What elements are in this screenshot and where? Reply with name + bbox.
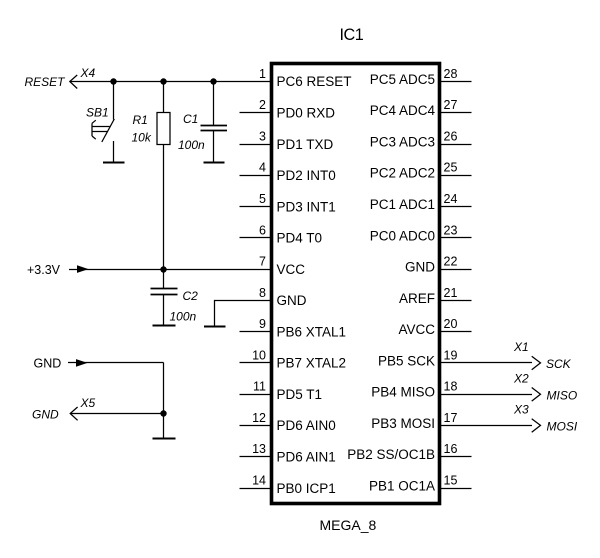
pin 15 label PB1 OC1A: [369, 479, 435, 494]
svg-text:26: 26: [444, 130, 458, 144]
wire pin 19 to X1: [440, 362, 533, 364]
wire C2 top lead: [163, 270, 165, 289]
junction dot SB1 branch: [110, 78, 116, 84]
svg-text:PD6 AIN0: PD6 AIN0: [277, 418, 336, 433]
pin number 1: [259, 67, 266, 81]
pin 13 label PD6 AIN1: [277, 450, 336, 465]
ground under C2: [153, 325, 176, 327]
wire R1 top lead: [163, 82, 165, 113]
svg-text:PC6 RESET: PC6 RESET: [277, 74, 352, 89]
svg-text:27: 27: [444, 98, 458, 112]
connector X3 open arrow: [532, 419, 541, 433]
wire SB1 top lead: [113, 82, 115, 120]
pin 12 label PD6 AIN0: [277, 418, 336, 433]
wire pin 26 stub: [440, 144, 472, 146]
pin 24 label PC1 ADC1: [370, 197, 435, 212]
wire GND flag to vertical: [68, 362, 164, 364]
svg-text:GND: GND: [34, 357, 62, 371]
pin 26 label PC3 ADC3: [370, 135, 435, 150]
wire C2 bottom lead: [163, 295, 165, 326]
label X4: [80, 66, 96, 80]
svg-text:PB2 SS/OC1B: PB2 SS/OC1B: [347, 447, 435, 462]
svg-text:PD1 TXD: PD1 TXD: [277, 137, 334, 152]
wire pin 8 GND stub: [215, 301, 272, 327]
svg-text:14: 14: [252, 474, 266, 488]
svg-text:23: 23: [444, 223, 458, 237]
svg-text:7: 7: [259, 255, 266, 269]
pin number 5: [259, 192, 266, 206]
svg-text:C2: C2: [183, 289, 199, 303]
wire vertical GND net: [163, 363, 165, 439]
label GND (connector): [32, 408, 59, 422]
pin number 26: [444, 130, 458, 144]
svg-text:17: 17: [444, 411, 458, 425]
svg-text:3: 3: [259, 130, 266, 144]
svg-text:8: 8: [259, 286, 266, 300]
label IC1: [340, 26, 364, 44]
label X2: [513, 371, 529, 385]
pin number 19: [444, 348, 458, 362]
pin number 28: [444, 67, 458, 81]
wire pin 4 stub: [240, 175, 272, 177]
svg-text:16: 16: [444, 442, 458, 456]
wire pin 2 stub: [240, 112, 272, 114]
pin number 13: [252, 442, 266, 456]
junction dot C2 branch: [160, 266, 166, 272]
pin 8 label GND: [277, 293, 307, 308]
ground under pin 8 branch: [204, 326, 226, 328]
capacitor C1: [201, 126, 228, 131]
connector X1 open arrow: [532, 356, 541, 370]
pin 1 label PC6 RESET: [277, 74, 352, 89]
svg-text:PB6 XTAL1: PB6 XTAL1: [277, 324, 347, 339]
pin 22 label GND: [405, 260, 435, 275]
pushbutton SB1: [92, 119, 114, 142]
svg-text:X4: X4: [80, 66, 96, 80]
connector X5 open arrow: [70, 407, 77, 420]
svg-text:11: 11: [253, 380, 266, 394]
wire pin 18 to X2: [440, 394, 533, 396]
svg-text:28: 28: [444, 67, 458, 81]
value 100n: [178, 138, 205, 152]
svg-text:PC4 ADC4: PC4 ADC4: [370, 103, 436, 118]
svg-text:PC0 ADC0: PC0 ADC0: [370, 228, 435, 243]
pin 9 label PB6 XTAL1: [277, 324, 347, 339]
svg-text:PD3 INT1: PD3 INT1: [277, 199, 336, 214]
wire pin 9 stub: [240, 331, 272, 333]
svg-text:21: 21: [444, 286, 458, 300]
wire pin 25 stub: [440, 175, 472, 177]
pin number 24: [444, 192, 458, 206]
pin number 15: [444, 474, 458, 488]
svg-text:PD4 T0: PD4 T0: [277, 231, 323, 246]
wire pin 24 stub: [440, 206, 472, 208]
svg-text:5: 5: [259, 192, 266, 206]
pin 7 label VCC: [277, 262, 306, 277]
svg-text:X3: X3: [513, 403, 529, 417]
pin number 2: [259, 98, 266, 112]
pin number 7: [259, 255, 266, 269]
pin 4 label PD2 INT0: [277, 168, 336, 183]
pin 10 label PB7 XTAL2: [277, 356, 347, 371]
svg-text:X5: X5: [80, 396, 96, 410]
svg-text:PB4 MISO: PB4 MISO: [371, 385, 435, 400]
pin number 25: [444, 161, 458, 175]
pin number 16: [444, 442, 458, 456]
pin number 18: [444, 380, 458, 394]
label GND power flag: [34, 357, 62, 371]
label +3.3V: [27, 263, 61, 277]
svg-text:18: 18: [444, 380, 458, 394]
label MOSI: [547, 420, 578, 434]
capacitor C2: [151, 289, 178, 295]
wire pin 11 stub: [240, 394, 272, 396]
pin 18 label PB4 MISO: [371, 385, 435, 400]
pin 23 label PC0 ADC0: [370, 228, 435, 243]
svg-text:GND: GND: [405, 260, 435, 275]
svg-text:C1: C1: [183, 112, 198, 126]
pin number 14: [252, 474, 266, 488]
pin 25 label PC2 ADC2: [370, 166, 435, 181]
value 10k: [132, 131, 152, 145]
pin 11 label PD5 T1: [277, 387, 323, 402]
pin 3 label PD1 TXD: [277, 137, 334, 152]
svg-text:PB0 ICP1: PB0 ICP1: [277, 481, 336, 496]
wire pin 17 to X3: [440, 425, 533, 427]
svg-text:PB3 MOSI: PB3 MOSI: [371, 416, 435, 431]
wire C1 top lead: [213, 82, 215, 126]
pin 20 label AVCC: [398, 322, 435, 337]
svg-text:VCC: VCC: [277, 262, 306, 277]
pin number 23: [444, 223, 458, 237]
svg-text:AVCC: AVCC: [398, 322, 435, 337]
svg-text:R1: R1: [133, 113, 148, 127]
pin 27 label PC4 ADC4: [370, 103, 436, 118]
wire pin 21 stub: [440, 300, 472, 302]
ground under C1: [204, 162, 225, 164]
pin number 20: [444, 317, 458, 331]
svg-text:+3.3V: +3.3V: [27, 263, 61, 277]
IC body outline U=IC1: [272, 64, 440, 504]
wire X5 branch: [70, 413, 164, 415]
wire pin 23 stub: [440, 237, 472, 239]
wire pin 6 stub: [240, 237, 272, 239]
svg-text:PC1 ADC1: PC1 ADC1: [370, 197, 435, 212]
power flag GND filled arrow: [76, 359, 88, 367]
svg-text:MEGA_8: MEGA_8: [320, 517, 377, 533]
svg-text:25: 25: [444, 161, 458, 175]
svg-text:GND: GND: [277, 293, 307, 308]
wire pin 13 stub: [240, 456, 272, 458]
node RESET: wire from X4 arrow to pin 1: [70, 81, 272, 83]
ground under X5 net: [153, 438, 176, 440]
label X5: [80, 396, 96, 410]
svg-text:4: 4: [259, 161, 266, 175]
label SB1: [86, 106, 109, 120]
svg-text:19: 19: [444, 348, 458, 362]
wire pin 5 stub: [240, 206, 272, 208]
svg-text:X2: X2: [513, 371, 529, 385]
svg-text:PC5 ADC5: PC5 ADC5: [370, 72, 435, 87]
connector X4 open arrow: [70, 75, 77, 89]
connector X2 open arrow: [532, 388, 541, 402]
svg-text:100n: 100n: [170, 310, 197, 324]
pin 17 label PB3 MOSI: [371, 416, 435, 431]
pin number 3: [259, 130, 266, 144]
svg-text:22: 22: [444, 255, 458, 269]
wire pin 22 stub: [440, 269, 472, 271]
wire R1 bottom lead to +3.3V rail: [163, 145, 165, 270]
pin 16 label PB2 SS/OC1B: [347, 447, 435, 462]
pin number 4: [259, 161, 266, 175]
svg-text:PB7 XTAL2: PB7 XTAL2: [277, 356, 347, 371]
junction dot X5 branch: [160, 410, 166, 416]
pin number 6: [259, 223, 266, 237]
label MISO: [547, 388, 578, 402]
svg-text:PC3 ADC3: PC3 ADC3: [370, 135, 435, 150]
junction dot R1 branch: [160, 78, 166, 84]
pin 2 label PD0 RXD: [277, 106, 336, 121]
label X3: [513, 403, 529, 417]
svg-text:15: 15: [444, 474, 458, 488]
svg-text:IC1: IC1: [340, 26, 364, 44]
label R1: [133, 113, 148, 127]
svg-text:AREF: AREF: [399, 291, 435, 306]
svg-text:GND: GND: [32, 408, 59, 422]
wire pin 12 stub: [240, 425, 272, 427]
pin number 11: [253, 380, 266, 394]
pin number 9: [259, 317, 266, 331]
svg-text:MISO: MISO: [547, 388, 578, 402]
wire pin 27 stub: [440, 112, 472, 114]
svg-text:9: 9: [259, 317, 266, 331]
wire pin 10 stub: [240, 362, 272, 364]
wire pin 16 stub: [440, 456, 472, 458]
svg-text:SB1: SB1: [86, 106, 109, 120]
value label MEGA_8: [320, 517, 377, 533]
junction dot C1 branch: [210, 78, 216, 84]
svg-text:PD0 RXD: PD0 RXD: [277, 106, 336, 121]
power flag +3.3V filled arrow: [77, 265, 89, 273]
svg-text:1: 1: [259, 67, 266, 81]
svg-text:PD5 T1: PD5 T1: [277, 387, 323, 402]
svg-text:RESET: RESET: [25, 75, 67, 89]
svg-text:13: 13: [252, 442, 266, 456]
wire pin 14 stub: [240, 488, 272, 490]
pin 5 label PD3 INT1: [277, 199, 336, 214]
svg-text:24: 24: [444, 192, 458, 206]
svg-text:20: 20: [444, 317, 458, 331]
svg-text:2: 2: [259, 98, 266, 112]
label C1: [183, 112, 198, 126]
label X1: [513, 340, 529, 354]
pin number 27: [444, 98, 458, 112]
label SCK: [546, 357, 572, 371]
svg-text:PD2 INT0: PD2 INT0: [277, 168, 336, 183]
label RESET: [25, 75, 67, 89]
pin 28 label PC5 ADC5: [370, 72, 435, 87]
svg-text:12: 12: [252, 411, 266, 425]
svg-text:MOSI: MOSI: [547, 420, 578, 434]
pin number 22: [444, 255, 458, 269]
svg-text:SCK: SCK: [546, 357, 572, 371]
pin number 12: [252, 411, 266, 425]
wire SB1 bottom lead: [113, 141, 115, 163]
pin 21 label AREF: [399, 291, 435, 306]
svg-text:10: 10: [252, 348, 266, 362]
wire pin 28 stub: [440, 81, 472, 83]
label C2: [183, 289, 199, 303]
pin 6 label PD4 T0: [277, 231, 323, 246]
wire pin 20 stub: [440, 331, 472, 333]
svg-text:10k: 10k: [132, 131, 152, 145]
wire pin 3 stub: [240, 144, 272, 146]
svg-text:6: 6: [259, 223, 266, 237]
svg-text:PB5 SCK: PB5 SCK: [378, 353, 435, 368]
ground under SB1: [103, 162, 125, 164]
pin number 10: [252, 348, 266, 362]
pin 19 label PB5 SCK: [378, 353, 435, 368]
svg-text:X1: X1: [513, 340, 529, 354]
svg-text:100n: 100n: [178, 138, 205, 152]
pin 14 label PB0 ICP1: [277, 481, 336, 496]
resistor R1: [157, 113, 170, 145]
wire C1 bottom lead: [213, 131, 215, 163]
pin number 17: [444, 411, 458, 425]
pin number 8: [259, 286, 266, 300]
svg-text:PC2 ADC2: PC2 ADC2: [370, 166, 435, 181]
svg-text:PD6 AIN1: PD6 AIN1: [277, 450, 336, 465]
svg-text:PB1 OC1A: PB1 OC1A: [369, 479, 435, 494]
wire pin 15 stub: [440, 488, 472, 490]
pin number 21: [444, 286, 458, 300]
value 100n (C2): [170, 310, 197, 324]
wire +3.3V rail to pin 7 VCC: [69, 269, 272, 271]
